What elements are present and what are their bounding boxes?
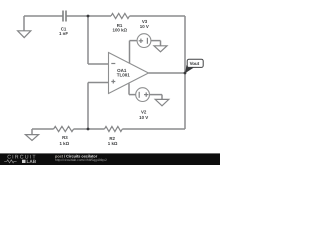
svg-text:10 V: 10 V xyxy=(139,115,148,120)
svg-text:100 kΩ: 100 kΩ xyxy=(113,28,128,33)
svg-text:TL081: TL081 xyxy=(117,73,131,78)
svg-text:1 kΩ: 1 kΩ xyxy=(59,141,69,146)
svg-text:1 kΩ: 1 kΩ xyxy=(108,141,118,146)
svg-text:Vout: Vout xyxy=(190,61,200,66)
svg-text:LAB: LAB xyxy=(27,159,37,164)
svg-text:1 nF: 1 nF xyxy=(59,31,68,36)
svg-text:R3: R3 xyxy=(62,135,68,140)
svg-text:V2: V2 xyxy=(141,110,147,115)
svg-text:10 V: 10 V xyxy=(140,24,149,29)
svg-text:http://circuitlab.com/c/h6f5qg: http://circuitlab.com/c/h6f5qg48fqx2 xyxy=(55,158,107,162)
